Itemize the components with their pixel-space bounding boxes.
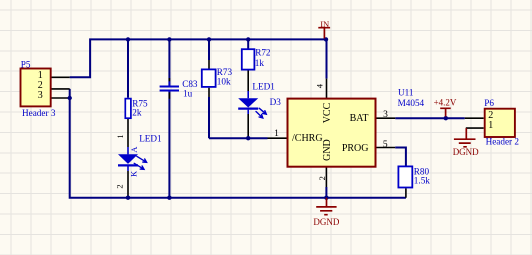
svg-text:Header 2: Header 2 — [486, 136, 520, 146]
svg-text:LED1: LED1 — [252, 81, 275, 91]
svg-text:2: 2 — [317, 176, 327, 180]
svg-text:LED1: LED1 — [139, 133, 162, 143]
svg-text:K: K — [129, 170, 139, 177]
svg-text:C83: C83 — [182, 79, 198, 89]
svg-text:P6: P6 — [484, 98, 494, 108]
svg-text:IN: IN — [320, 19, 330, 29]
svg-text:1: 1 — [274, 129, 279, 139]
svg-text:1: 1 — [116, 135, 125, 139]
svg-text:/CHRG: /CHRG — [292, 133, 323, 144]
svg-text:3: 3 — [383, 110, 388, 120]
svg-text:VCC: VCC — [322, 102, 333, 123]
svg-text:R73: R73 — [217, 67, 233, 77]
svg-text:3: 3 — [38, 90, 43, 101]
svg-text:1k: 1k — [255, 58, 265, 68]
svg-text:1: 1 — [488, 120, 493, 131]
svg-text:10k: 10k — [217, 77, 231, 87]
svg-text:+4.2V: +4.2V — [434, 98, 457, 108]
svg-text:D3: D3 — [270, 97, 282, 107]
svg-text:1u: 1u — [183, 89, 193, 99]
svg-text:1.5k: 1.5k — [414, 176, 430, 186]
svg-text:R72: R72 — [255, 48, 271, 58]
svg-text:DGND: DGND — [453, 147, 479, 157]
svg-text:Header 3: Header 3 — [22, 108, 56, 118]
svg-text:U11: U11 — [398, 88, 414, 98]
svg-text:A: A — [129, 146, 139, 153]
svg-text:2: 2 — [115, 184, 125, 188]
svg-text:GND: GND — [322, 139, 333, 161]
svg-text:BAT: BAT — [350, 113, 369, 124]
svg-text:PROG: PROG — [342, 143, 369, 154]
svg-text:P5: P5 — [21, 59, 31, 69]
svg-text:M4054: M4054 — [398, 98, 425, 108]
svg-text:5: 5 — [383, 140, 388, 150]
svg-text:2k: 2k — [132, 107, 142, 117]
svg-text:DGND: DGND — [313, 217, 339, 227]
